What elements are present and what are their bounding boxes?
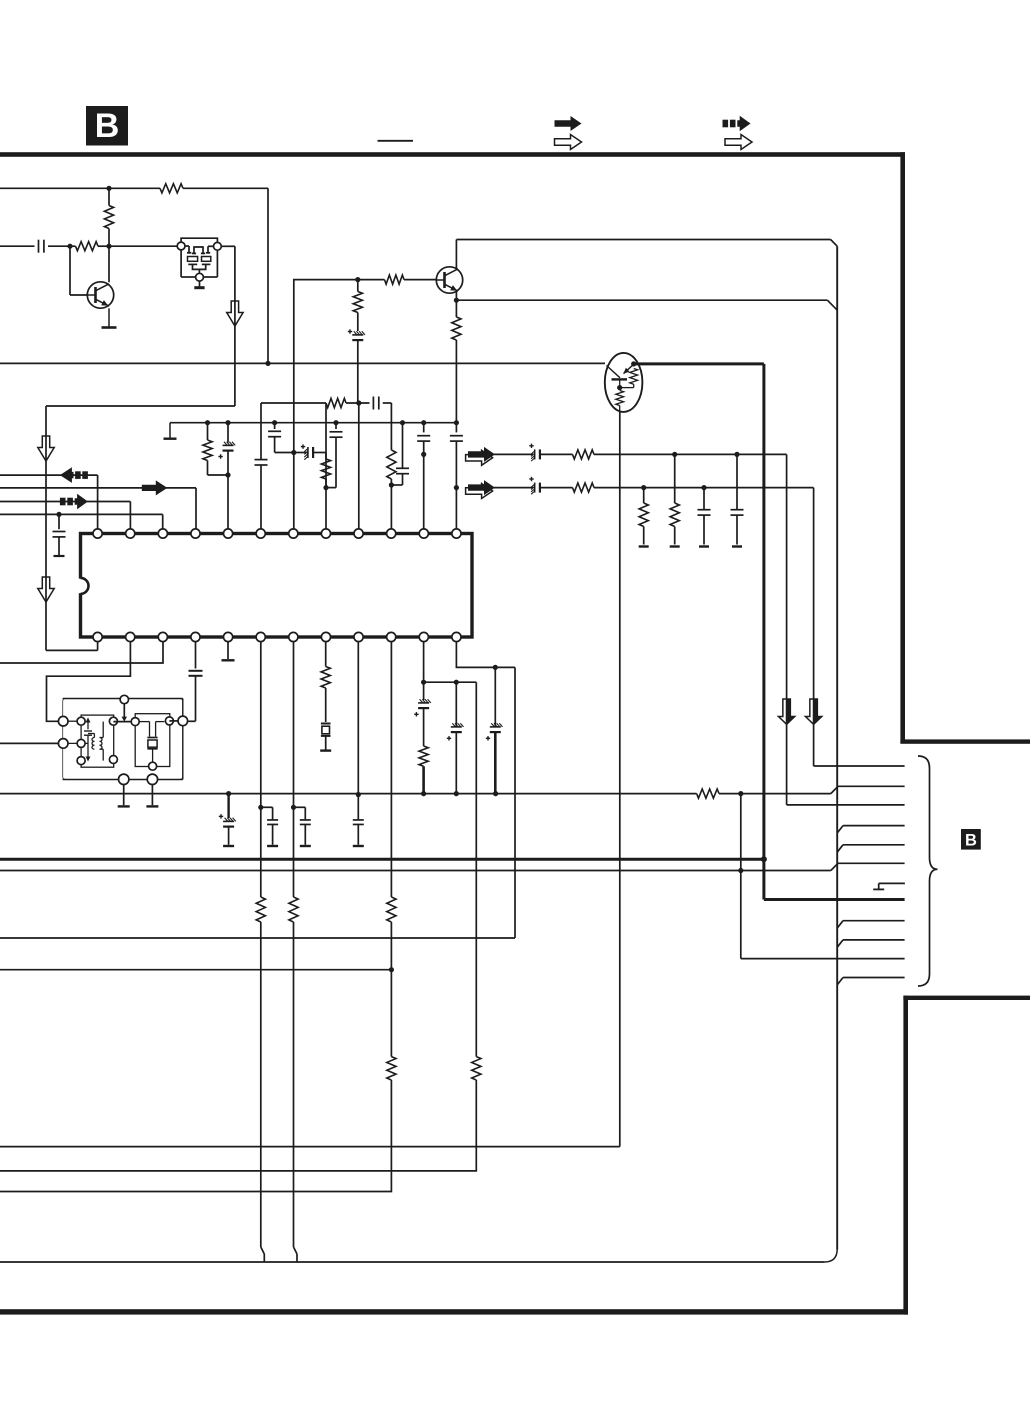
capacitor C19 polarized [447, 682, 464, 793]
bus exit 5 [837, 978, 904, 985]
wire out5 [0, 1080, 476, 1171]
node J21 [672, 452, 677, 457]
node J26 [421, 680, 426, 685]
legend arrow dashed [723, 116, 751, 132]
bus exit 1 [837, 826, 904, 833]
wire thick rail [0, 858, 764, 861]
wire Q2 base rail [294, 280, 385, 529]
title underline [378, 140, 414, 142]
svg-text:B: B [95, 107, 120, 145]
transistor Q1 [87, 282, 113, 308]
wire pin11 branch [424, 681, 477, 683]
wire pin2 bottom [47, 642, 131, 722]
bus exit 3 [837, 921, 904, 928]
wire out4 [0, 1146, 620, 1148]
capacitor C16 [53, 514, 66, 556]
section marker B [86, 106, 128, 146]
capacitor C13 polarized [529, 477, 540, 495]
resistor R15 [321, 642, 330, 723]
node J23 [641, 485, 646, 490]
node J28 [493, 665, 498, 670]
wire pin10 down [390, 642, 392, 898]
wire collector Q1 [108, 246, 110, 282]
svg-text:B: B [965, 831, 977, 849]
resistor R14 [670, 454, 680, 546]
arrow in B [142, 480, 168, 495]
jog pin6 end [261, 1247, 265, 1262]
wire to pin5 [227, 475, 229, 529]
node J5 [355, 277, 360, 282]
legend arrow open 2 [725, 135, 752, 150]
wire pin6 down [260, 642, 262, 1248]
capacitor C5 [373, 397, 378, 410]
wire thick to bus [764, 859, 905, 899]
node J25 [56, 512, 61, 517]
transformer box outline [63, 699, 183, 780]
open arrow down 2 [38, 436, 54, 461]
wire out6 [0, 1080, 391, 1192]
wire X1 drop [46, 406, 235, 650]
wire filter top [261, 402, 391, 404]
stub with step [873, 883, 905, 889]
wire J4 to filter [109, 245, 177, 247]
node J13 [291, 450, 296, 455]
wire out 1 [494, 453, 787, 455]
resistor R18 [256, 897, 265, 922]
crystal X2 [320, 724, 331, 751]
wire pin10 lower [390, 922, 392, 1057]
wire in B [0, 488, 196, 529]
arrow down out2 [805, 699, 821, 724]
capacitor C3 polarized [218, 423, 235, 475]
arrow in C [60, 494, 88, 510]
arrow out 1 shadow [466, 450, 493, 465]
IC U1 top pins [93, 529, 461, 538]
resonator pins [131, 717, 173, 770]
transformer box top pin [120, 695, 128, 703]
node J37 [738, 868, 743, 873]
capacitor C20 polarized [486, 667, 503, 793]
wire pin12 bottom [456, 642, 515, 668]
transistor Q2 [436, 267, 462, 293]
capacitor C23 [294, 807, 311, 846]
bus entry rail A [831, 786, 905, 793]
wire in C [0, 502, 130, 529]
ground Q1 [102, 308, 117, 327]
wire pin11 lower2 [475, 1079, 477, 1081]
wire out2 drop [814, 488, 905, 766]
resistor R11 [573, 450, 594, 459]
wire pin11 drop [475, 682, 477, 1056]
bus entry emitter [827, 300, 837, 310]
transformer T1 [68, 715, 114, 767]
resistor R21 [387, 1057, 396, 1080]
wire pin9 up [358, 403, 360, 529]
wire C4 branch [260, 403, 262, 460]
node J39 [389, 967, 394, 972]
node J1 [106, 186, 111, 191]
resonator X3 [135, 714, 170, 767]
wire in D [0, 514, 163, 528]
node J6 [454, 298, 459, 303]
capacitor C8 [326, 423, 343, 488]
wire pin12 up [455, 488, 457, 529]
resistor R3 [70, 242, 109, 251]
node J38 [761, 856, 767, 862]
legend arrow open [555, 135, 582, 150]
resistor R5 [452, 300, 461, 423]
capacitor C1 [39, 240, 44, 253]
node J4 [106, 244, 111, 249]
node J17 [421, 420, 426, 425]
wire pin10 up [390, 403, 392, 450]
wire X3 right [169, 720, 178, 722]
capacitor C14 [698, 488, 711, 547]
node J30 [258, 805, 263, 810]
resistor R13 [639, 488, 649, 547]
node J27 [454, 680, 459, 685]
capacitor C4 [255, 460, 268, 529]
open arrow down 1 [227, 301, 243, 326]
node J3 [67, 244, 72, 249]
transformer box left pin 2 [58, 739, 68, 749]
bus line [836, 246, 838, 1249]
wire top rail [0, 187, 268, 189]
wire box bottom [0, 1250, 837, 1263]
node J33 [421, 791, 426, 796]
capacitor C12 polarized [529, 444, 540, 462]
wire Q3 emitter down [619, 412, 621, 1147]
wire out1 drop [787, 454, 905, 805]
node J29 [226, 791, 231, 796]
resistor R22 [472, 1057, 481, 1080]
ground T1 stub 2 [146, 785, 158, 807]
wire pin9 down [357, 642, 359, 795]
capacitor C24 [353, 795, 364, 847]
node J31 [291, 805, 296, 810]
bus entry collector [831, 240, 838, 247]
transformer box right pin [178, 716, 188, 726]
transformer box left pin 1 [58, 716, 68, 726]
capacitor C10 [417, 423, 430, 455]
resistor R10 [387, 450, 396, 485]
resistor R2 [104, 188, 113, 246]
ceramic filter X1 [177, 238, 221, 281]
resistor R19 [289, 897, 298, 922]
IC U1 [78, 534, 472, 638]
node J32 [356, 792, 361, 797]
wire J37 drop [741, 871, 905, 959]
rail wire [170, 422, 456, 424]
wire out3 [0, 969, 391, 971]
wire T1 to X3 [113, 721, 135, 723]
node J12 [272, 420, 277, 425]
arrow out 2 shadow [466, 484, 493, 499]
resistor R6 [353, 280, 362, 331]
wire pin3 bottom [0, 642, 163, 664]
wire pin11 up [423, 454, 425, 528]
wire pin4 bottom [195, 642, 197, 669]
wire input [0, 245, 70, 247]
capacitor C22 [261, 807, 278, 846]
node J14 [323, 485, 328, 490]
node J19 [454, 420, 459, 425]
arrow out 2 [468, 480, 495, 495]
node J24 [701, 485, 706, 490]
wire out 2 [494, 487, 814, 489]
legend arrow solid [555, 116, 582, 131]
arrow down out1 [778, 699, 794, 724]
capacitor C6 [268, 423, 294, 453]
capacitor C9 [391, 423, 409, 485]
node J9 [225, 472, 230, 477]
transformer box bottom pin 1 [119, 774, 129, 784]
stub pin5 [222, 642, 235, 661]
wire Q3 thick out [634, 364, 764, 859]
node J15 [333, 420, 338, 425]
wire input 2 [0, 742, 58, 744]
wire rail B [0, 870, 831, 872]
capacitor C11 [450, 423, 463, 488]
node J35 [493, 791, 498, 796]
ground T1 stub 1 [118, 785, 130, 807]
resistor R9 [321, 453, 330, 488]
jog pin7 end [294, 1247, 298, 1262]
node J36 [738, 791, 743, 796]
wire pin7 down [293, 642, 295, 1248]
resistor R4 [385, 275, 437, 284]
node J7 [205, 420, 210, 425]
capacitor C7 polarized [294, 444, 326, 459]
bus exit 4 [837, 940, 904, 947]
digital transistor Q3 [605, 353, 643, 412]
capacitor C18 polarized [414, 682, 431, 746]
node J11 [389, 482, 394, 487]
capacitor C21 polarized [219, 794, 236, 846]
IC U1 bottom pins [93, 632, 461, 641]
open arrow down 3 [38, 577, 54, 602]
capacitor C15 [731, 454, 744, 546]
node J34 [454, 791, 459, 796]
resistor R1 [160, 184, 183, 193]
wire pin8 up [325, 403, 327, 529]
wire base Q1 [70, 246, 87, 295]
wire R1 to bus-B drop [267, 188, 269, 363]
wire Q2 emitter [455, 292, 457, 301]
resistor R7 [203, 423, 228, 475]
resistor R16 [419, 746, 428, 794]
brace bus [918, 756, 938, 986]
node J16 [400, 420, 405, 425]
resistor R20 [387, 897, 396, 922]
bus entry rail B [831, 863, 905, 870]
wire J36 drop [740, 794, 742, 871]
wire in A [0, 475, 98, 529]
wire long signal [0, 362, 605, 364]
wire X1 out [221, 246, 235, 406]
transformer box bottom pin 2 [147, 774, 157, 784]
capacitor C2 polarized [348, 329, 365, 403]
wire pin11 down [423, 642, 425, 683]
resistor R12 [573, 483, 594, 492]
ground X1 [194, 281, 204, 288]
resistor R8 [326, 398, 346, 407]
arrow out 1 [468, 447, 495, 462]
node J2 [265, 361, 270, 366]
capacitor C17 [188, 671, 202, 722]
wire Q2 collector [456, 240, 830, 270]
arrow in A [60, 467, 88, 483]
node J20 [454, 485, 459, 490]
wire main rail A [0, 793, 831, 795]
node J22 [734, 452, 739, 457]
wire pin10 to IC [390, 485, 392, 529]
transformer inner pins [77, 717, 117, 764]
wire pin12 drop [0, 667, 515, 938]
ground rail [164, 423, 177, 439]
bus exit 2 [837, 845, 904, 852]
section marker B right [961, 829, 981, 850]
node J8 [225, 420, 230, 425]
wire emitter to bus [456, 299, 827, 301]
resistor R17 [697, 789, 719, 798]
node J18 [421, 452, 426, 457]
node J10 [356, 400, 361, 405]
